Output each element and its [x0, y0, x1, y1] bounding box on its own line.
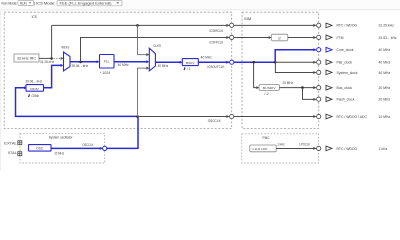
port triangle System_clock: [326, 70, 332, 75]
wire drop to BUSDIV: [254, 62, 257, 87]
svg-text:31.25 kHz: 31.25 kHz: [40, 60, 54, 64]
port triangle RTC/WDOG/ADC: [326, 114, 332, 119]
pin XTAL: [8, 151, 22, 156]
svg-text:Bus_clock: Bus_clock: [337, 86, 353, 90]
node System_clock on SIM edge: [317, 70, 321, 74]
wire /2 to FTM: [288, 37, 316, 39]
wire ICSFFCLK riser and horizontal: [81, 38, 230, 62]
svg-text:39.06... kHz: 39.06... kHz: [72, 64, 89, 68]
arrowhead into /2: [269, 36, 272, 39]
svg-text:IREFS: IREFS: [61, 46, 69, 50]
LPO box 1 kHz: [250, 145, 276, 152]
wire ICSIRCLK horizontal: [52, 24, 229, 26]
svg-text:FLL: FLL: [104, 60, 110, 64]
port triangle Bus_clock: [326, 85, 332, 90]
node junction IRC: [50, 57, 53, 60]
mux IREFS: [64, 52, 71, 71]
svg-text:RTC / WDOG / ADC: RTC / WDOG / ADC: [337, 115, 368, 119]
svg-text:| ICS Mode:: | ICS Mode:: [34, 1, 56, 6]
arrowhead into CLKS bottom input: [146, 67, 149, 70]
node RTC/WDOG on SIM edge: [317, 23, 321, 27]
ICS module dashed box: [4, 12, 232, 128]
svg-text:19.53... kHz: 19.53... kHz: [379, 36, 397, 40]
port triangle Plat_clock: [326, 60, 332, 65]
oscillator IRC box 32 kHz: [14, 54, 39, 62]
svg-text:SIM: SIM: [244, 17, 251, 21]
svg-text:* 1024: * 1024: [100, 71, 111, 75]
node Core_clock on SIM edge: [317, 48, 321, 52]
node ICSOUTCLK on ICS edge: [230, 60, 234, 64]
arrowhead ICSFFCLK node: [226, 36, 229, 39]
svg-text:1 kHz: 1 kHz: [379, 147, 388, 151]
wire ICSIRCLK to SIM RTC/WDOG: [234, 24, 316, 26]
svg-text:Plat_clock: Plat_clock: [337, 61, 353, 65]
svg-text:40 MHz: 40 MHz: [158, 64, 169, 68]
pencil icon RDIV: [28, 94, 30, 97]
svg-text:10 MHz: 10 MHz: [54, 151, 64, 155]
toolbar background: [0, 0, 400, 171]
FLL box: [100, 55, 115, 69]
svg-text:RUN: RUN: [20, 1, 27, 5]
svg-text:System oscillator: System oscillator: [49, 136, 74, 140]
junction OSCCLK: [136, 115, 139, 118]
arrowhead ICSIRCLK into node: [226, 24, 229, 27]
mux CLKS: [149, 48, 155, 71]
combo box RUN: [18, 1, 34, 6]
port triangle RTC/WDOG lpo: [326, 146, 332, 151]
wire FLL to CLKS: [114, 61, 147, 63]
wire core riser to Core_clock: [275, 50, 316, 63]
dashed disabled wire IRC to IREFS mux: [54, 57, 62, 59]
arrowhead RTC/WDOG/ADC: [313, 115, 316, 118]
svg-text:/2: /2: [278, 37, 281, 41]
junction for core riser: [274, 61, 277, 64]
svg-text:Core_clock: Core_clock: [337, 48, 354, 52]
wire RDIV output to IREFS: [44, 65, 62, 87]
node Plat_clock on SIM edge: [317, 60, 321, 64]
svg-text:40 MHz: 40 MHz: [379, 71, 391, 75]
arrowhead into RDIV: [24, 86, 27, 89]
svg-text:ICSIRCLK: ICSIRCLK: [209, 29, 224, 33]
port triangle Core_clock: [326, 47, 332, 52]
arrowhead into CLKS top input: [146, 53, 149, 56]
svg-text:CLKS: CLKS: [153, 44, 161, 48]
node OSCCLK on oscillator edge: [103, 146, 107, 150]
combo box FEE (FLL Engaged External): [57, 1, 122, 6]
port triangle RTC/WDOG: [326, 23, 332, 28]
wire bypass IRC to CLKS mux: [138, 25, 147, 54]
divider BUSDIV box: [259, 85, 280, 91]
port triangle Flash_clock: [326, 97, 332, 102]
junction on ICSIRCLK for CLKS bypass: [136, 24, 139, 27]
node Bus_clock on SIM edge: [317, 86, 321, 90]
arrowhead LPOCLK node: [313, 147, 316, 150]
wire drop to Flash_clock: [303, 88, 316, 100]
arrowhead OSCCLK osc node: [100, 147, 103, 150]
svg-text:20 MHz: 20 MHz: [379, 86, 391, 90]
svg-text:RTC / WDOG: RTC / WDOG: [337, 147, 358, 151]
arrowhead Flash_clock: [313, 98, 316, 101]
svg-text:OSC: OSC: [36, 146, 44, 150]
svg-text:EXTAL: EXTAL: [4, 141, 17, 145]
node Flash_clock on SIM edge: [317, 97, 321, 101]
svg-text:BDIV: BDIV: [186, 61, 196, 65]
arrowhead OSCCLK node: [226, 115, 229, 118]
pencil icon BDIV: [184, 67, 186, 70]
svg-text:LPOCLK: LPOCLK: [300, 143, 311, 147]
svg-text:ICSFFCLK: ICSFFCLK: [209, 41, 224, 45]
blue wire OSCCLK bottom distribution (OSC to RDIV riser): [16, 88, 139, 149]
divider /2 box (FTM): [271, 34, 288, 41]
node OSCCLK on ICS edge: [230, 114, 234, 118]
svg-text:Run Mode:: Run Mode:: [2, 1, 18, 6]
pin EXTAL: [4, 141, 22, 146]
svg-text:40 MHz: 40 MHz: [379, 48, 391, 52]
svg-text:10 MHz: 10 MHz: [379, 115, 391, 119]
arrowhead Core_clock: [313, 48, 316, 51]
node LPOCLK on PMC edge: [317, 146, 321, 150]
wire IRC output to junction: [39, 57, 52, 59]
arrowhead into BDIV: [180, 61, 183, 64]
svg-text:/ 1: / 1: [187, 67, 191, 71]
svg-text:Flash_clock: Flash_clock: [337, 98, 355, 102]
wire LPO to node: [276, 148, 316, 150]
wire IREFS output to FLL: [70, 61, 98, 63]
divider RDIV box: [26, 85, 44, 92]
PMC module dashed box: [242, 134, 319, 163]
arrowhead into CLKS mid input: [146, 60, 149, 63]
arrowhead Bus_clock: [313, 86, 316, 89]
wire IRC junction up to ICSIRCLK line: [51, 25, 53, 58]
wire node to riser: [107, 147, 139, 149]
svg-text:40 MHz: 40 MHz: [201, 55, 212, 59]
svg-text:BUSDIV: BUSDIV: [263, 86, 276, 90]
svg-text:1 kHz LPO: 1 kHz LPO: [252, 147, 268, 151]
arrowhead ICSOUTCLK node: [226, 61, 229, 64]
wire OSCCLK to ICS edge: [138, 116, 230, 118]
svg-text:FTM: FTM: [337, 36, 344, 40]
svg-text:40 MHz: 40 MHz: [379, 61, 391, 65]
svg-text:OSCCLK: OSCCLK: [208, 119, 222, 123]
node FTM on SIM edge: [317, 35, 321, 39]
junction for BUSDIV: [253, 61, 256, 64]
svg-text:39.06... kHz: 39.06... kHz: [26, 79, 43, 83]
node ICSFFCLK on ICS edge: [230, 35, 234, 39]
node RTC/WDOG/ADC on SIM edge: [317, 114, 321, 118]
svg-text:40 MHz: 40 MHz: [118, 63, 129, 67]
svg-text:31.25 kHz: 31.25 kHz: [379, 23, 395, 27]
wire OSCCLK to RTC/WDOG/ADC: [234, 116, 316, 118]
divider BDIV box: [182, 59, 198, 66]
svg-text:PMC: PMC: [263, 136, 271, 140]
wire ICSFFCLK to divider /2: [234, 37, 270, 39]
svg-text:RTC / WDOG: RTC / WDOG: [337, 23, 358, 27]
junction after IREFS: [79, 61, 82, 64]
wire BUSDIV to Bus_clock: [280, 87, 316, 89]
arrowhead System_clock: [313, 71, 316, 74]
svg-text:20 MHz: 20 MHz: [379, 98, 391, 102]
arrowhead FTM: [313, 36, 316, 39]
wire BDIV to ICSOUTCLK node: [198, 61, 229, 63]
arrowhead into IREFS bottom input: [61, 64, 64, 67]
SIM module dashed box: [242, 12, 319, 128]
svg-text:/256: /256: [31, 94, 39, 98]
arrowhead into FLL: [97, 60, 100, 63]
svg-text:ICS: ICS: [32, 15, 38, 19]
junction bus/flash: [301, 86, 304, 89]
arrowhead into BUSDIV: [256, 86, 259, 89]
svg-text:RDIV: RDIV: [30, 87, 40, 91]
svg-text:20 MHz: 20 MHz: [283, 81, 294, 85]
wire to Plat_clock: [275, 61, 315, 63]
port triangle FTM: [326, 35, 332, 40]
svg-text:ICSOUTCLK: ICSOUTCLK: [207, 65, 225, 69]
svg-text:FEE (FLL Engaged External): FEE (FLL Engaged External): [60, 2, 113, 6]
svg-text:OSCCLK: OSCCLK: [82, 143, 94, 147]
wire drop to System_clock: [275, 62, 315, 72]
node ICSIRCLK on ICS edge: [230, 23, 234, 27]
svg-text:XTAL: XTAL: [8, 151, 17, 155]
arrowhead into IREFS top input: [61, 57, 64, 60]
svg-text:32 kHz IRC: 32 kHz IRC: [17, 57, 37, 61]
wire CLKS to BDIV: [155, 61, 181, 63]
System oscillator dashed box: [20, 133, 105, 163]
oscillator OSC box: [29, 145, 52, 152]
svg-text:1 kHz: 1 kHz: [277, 143, 285, 147]
wire ICSOUTCLK into SIM: [234, 61, 275, 63]
arrowhead RTC/WDOG: [313, 24, 316, 27]
wire OSC to node: [51, 147, 102, 149]
arrowhead Plat_clock: [313, 61, 316, 64]
wire bypass OSCCLK to CLKS mux: [138, 68, 147, 116]
svg-text:/ 2: / 2: [264, 92, 269, 96]
svg-text:System_clock: System_clock: [337, 71, 358, 75]
